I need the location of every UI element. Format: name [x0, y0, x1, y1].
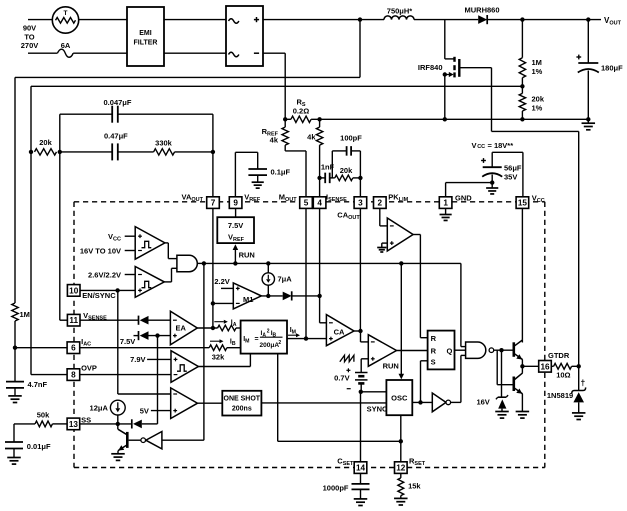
svg-text:ONE SHOT: ONE SHOT — [224, 396, 261, 403]
svg-text:M1: M1 — [243, 295, 253, 304]
svg-text:2: 2 — [278, 340, 281, 346]
svg-text:14: 14 — [356, 464, 366, 473]
svg-text:12: 12 — [396, 464, 406, 473]
svg-text:3: 3 — [358, 199, 363, 208]
svg-text:11: 11 — [69, 316, 78, 325]
svg-text:35V: 35V — [504, 173, 517, 182]
svg-text:6A: 6A — [61, 41, 71, 50]
svg-text:16: 16 — [540, 362, 550, 371]
svg-text:1M: 1M — [20, 310, 30, 319]
svg-text:4.7nF: 4.7nF — [28, 380, 48, 389]
svg-text:15: 15 — [518, 199, 528, 208]
svg-text:1N5819: 1N5819 — [547, 391, 573, 400]
svg-text:1%: 1% — [532, 67, 543, 76]
svg-text:5V: 5V — [140, 406, 149, 415]
svg-text:GTDR: GTDR — [548, 351, 570, 360]
svg-text:= 18V**: = 18V** — [488, 141, 514, 150]
svg-text:10Ω: 10Ω — [556, 370, 570, 379]
svg-text:EA: EA — [176, 324, 187, 333]
svg-text:0.1μF: 0.1μF — [271, 168, 291, 177]
svg-text:90V: 90V — [23, 24, 36, 33]
svg-text:=: = — [255, 336, 259, 343]
svg-text:EN/SYNC: EN/SYNC — [82, 291, 116, 300]
svg-text:20k: 20k — [39, 138, 52, 147]
svg-text:0.047μF: 0.047μF — [104, 98, 132, 107]
svg-text:7μA: 7μA — [278, 275, 293, 284]
svg-text:180μF: 180μF — [601, 64, 623, 73]
svg-text:V: V — [472, 141, 477, 150]
svg-text:7.9V: 7.9V — [130, 355, 145, 364]
svg-text:R: R — [431, 334, 437, 343]
svg-text:2: 2 — [267, 329, 270, 335]
svg-text:TO: TO — [24, 32, 34, 41]
svg-text:32k: 32k — [212, 352, 225, 361]
svg-text:1%: 1% — [532, 104, 543, 113]
svg-text:7.5V: 7.5V — [228, 221, 243, 230]
svg-text:IRF840: IRF840 — [418, 63, 443, 72]
svg-text:SS: SS — [81, 415, 91, 424]
svg-text:56μF: 56μF — [504, 164, 522, 173]
svg-text:CA: CA — [334, 327, 345, 336]
svg-text:13: 13 — [69, 420, 79, 429]
svg-text:0.01μF: 0.01μF — [27, 442, 51, 451]
svg-text:Q: Q — [447, 346, 453, 355]
svg-text:0.2Ω: 0.2Ω — [293, 107, 309, 116]
svg-text:6: 6 — [71, 344, 76, 353]
svg-text:750μH*: 750μH* — [387, 6, 413, 15]
svg-text:7.5V: 7.5V — [120, 337, 135, 346]
svg-text:1000pF: 1000pF — [323, 484, 349, 493]
svg-text:MURH860: MURH860 — [464, 6, 499, 15]
svg-text:SYNC: SYNC — [367, 404, 388, 413]
svg-text:OVP: OVP — [81, 363, 97, 372]
svg-text:4k: 4k — [307, 133, 316, 142]
svg-text:16V TO 10V: 16V TO 10V — [80, 247, 121, 256]
svg-text:9: 9 — [233, 199, 238, 208]
svg-text:1: 1 — [443, 199, 448, 208]
svg-text:1M: 1M — [532, 58, 542, 67]
svg-text:10: 10 — [69, 286, 79, 295]
svg-text:2.2V: 2.2V — [214, 277, 229, 286]
svg-text:2: 2 — [378, 199, 383, 208]
svg-text:FILTER: FILTER — [134, 40, 158, 47]
svg-text:RUN: RUN — [383, 362, 399, 371]
svg-text:50k: 50k — [37, 411, 50, 420]
svg-text:7: 7 — [211, 199, 216, 208]
svg-text:4: 4 — [317, 199, 322, 208]
svg-text:EMI: EMI — [139, 30, 152, 37]
svg-text:R: R — [431, 346, 437, 355]
svg-text:16V: 16V — [476, 397, 489, 406]
svg-text:2.6V/2.2V: 2.6V/2.2V — [88, 271, 121, 280]
svg-text:270V: 270V — [21, 41, 39, 50]
svg-text:20k: 20k — [532, 95, 545, 104]
svg-text:CC: CC — [477, 144, 485, 150]
svg-text:†: † — [581, 378, 586, 388]
svg-text:OSC: OSC — [391, 393, 408, 402]
svg-text:5: 5 — [304, 199, 309, 208]
svg-text:0.7V: 0.7V — [334, 373, 349, 382]
svg-text:S: S — [431, 357, 436, 366]
svg-text:200μA: 200μA — [260, 342, 280, 349]
svg-text:4k: 4k — [270, 136, 279, 145]
svg-text:8: 8 — [71, 371, 76, 380]
svg-text:12μA: 12μA — [90, 404, 109, 413]
svg-text:RUN: RUN — [239, 251, 255, 260]
svg-text:T: T — [64, 10, 68, 17]
svg-text:GND: GND — [455, 194, 472, 203]
svg-text:330k: 330k — [155, 139, 173, 148]
svg-text:200ns: 200ns — [232, 406, 252, 413]
svg-text:100pF: 100pF — [340, 134, 362, 143]
svg-text:20k: 20k — [340, 166, 353, 175]
svg-text:0.47μF: 0.47μF — [104, 132, 128, 141]
svg-text:15k: 15k — [408, 482, 421, 491]
